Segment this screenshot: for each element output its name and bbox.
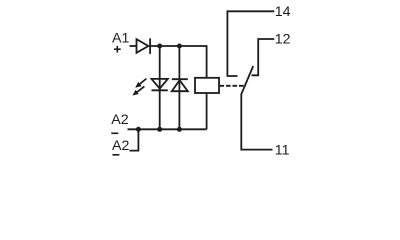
- wire lower A2 up to tie point: [130, 129, 139, 150]
- movable contact blade: [241, 66, 253, 94]
- LED light emission arrows: [132, 79, 146, 96]
- junction node LED branch bottom: [157, 127, 162, 132]
- wire relay coil bottom to rail: [206, 93, 208, 129]
- svg-text:A2: A2: [111, 112, 128, 128]
- wire A1 to diode D1: [130, 45, 137, 47]
- polarity minus of lower A2: [112, 154, 119, 156]
- svg-text:A2: A2: [112, 138, 129, 154]
- diode D1: [137, 38, 151, 54]
- svg-text:A1: A1: [112, 31, 129, 47]
- wire terminal 12 and NC fixed contact: [252, 39, 275, 75]
- relay coil K1: [195, 78, 219, 93]
- wire common to terminal 11: [241, 94, 272, 150]
- wire LED branch vertical: [159, 46, 161, 129]
- svg-text:12: 12: [275, 32, 291, 48]
- junction node D2 branch bottom: [177, 127, 182, 132]
- junction node at LED branch top: [157, 44, 162, 49]
- freewheeling diode D2: [172, 79, 188, 91]
- polarity plus of A1: [114, 46, 121, 53]
- LED indicator: [152, 79, 168, 90]
- junction node A2 tie point: [136, 127, 141, 132]
- wire D2 branch vertical: [178, 46, 180, 129]
- wire terminal 14 and NO fixed contact: [227, 11, 274, 76]
- junction node at D2 branch top: [177, 44, 182, 49]
- svg-text:11: 11: [275, 143, 290, 159]
- svg-text:14: 14: [275, 4, 291, 20]
- wire top rail from D1 to relay coil top: [150, 46, 207, 78]
- polarity minus of upper A2: [111, 132, 118, 134]
- wire bottom rail A2: [128, 128, 207, 130]
- dashed actuator link coil to contact: [220, 85, 246, 87]
